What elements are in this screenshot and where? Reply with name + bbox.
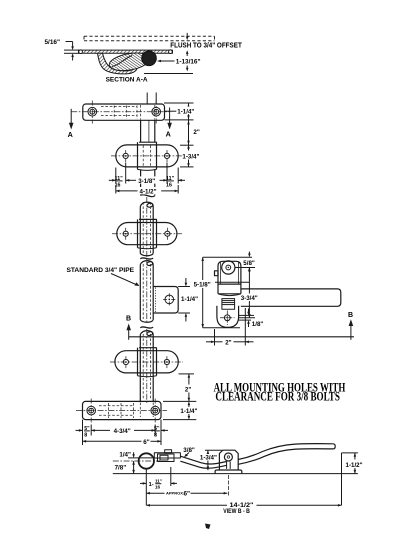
svg-text:16: 16 [155,485,161,490]
view B-B lever shaft [180,456,226,468]
dimension 2" upper [180,120,194,145]
svg-text:1-1/4": 1-1/4" [181,296,198,303]
dimension flush offset vertical [186,33,189,40]
svg-text:4-1/2": 4-1/2" [140,189,157,196]
svg-text:16: 16 [166,182,172,188]
top plate centerlines [71,100,169,125]
view B-B pipe circle [113,453,160,468]
svg-text:5/8": 5/8" [243,260,255,267]
section arrow A left [68,109,74,139]
second guide centerlines [112,228,182,240]
view B-B pivot bracket [215,450,242,473]
bottom guide left hole [123,359,128,364]
dimension 1/4" view B-B [128,452,152,458]
label STANDARD 3/4" PIPE with leader [67,267,140,286]
dimension approx 6" view B-B [146,475,228,496]
svg-text:B: B [126,316,131,323]
section A-A keeper bar (hatched) [79,50,173,54]
first guide centerlines [111,150,183,162]
page mark [205,524,211,530]
svg-text:3-3/4": 3-3/4" [241,295,258,302]
dimension 7/8" view B-B [132,461,135,474]
bottom plate right hole [151,406,160,415]
view B-B handle lever [238,444,335,465]
section A-A hook strip (hatched) [98,53,137,74]
svg-text:STANDARD 3/4" PIPE: STANDARD 3/4" PIPE [67,267,135,274]
section A-A flush plane dashed outline [84,36,215,41]
top plate hidden lines [101,105,155,120]
dimension row 11/16 3-1/8 11/16 [109,163,185,184]
flat bar between plate and first guide [141,120,155,142]
section A-A rod cross-section (solid) [142,51,157,66]
svg-text:5": 5" [154,426,160,432]
dimension 5-1/8" [201,257,252,328]
view B-B pivot pin [224,453,232,461]
svg-text:CLEARANCE FOR 3/8 BOLTS: CLEARANCE FOR 3/8 BOLTS [215,389,340,403]
dimension 1-3/4" view B-B [205,450,222,470]
bottom plate left hole [87,406,96,415]
svg-text:5-1/8": 5-1/8" [194,281,211,288]
dimension 5/8" [236,252,256,273]
second guide left hole [123,231,128,236]
dimension 2" lower [179,374,195,402]
spring coil (front view) [222,299,235,310]
svg-text:1-: 1- [149,482,154,488]
pipe break below clamp [140,327,153,336]
bottom mounting plate [83,401,162,419]
top plate left hole [88,107,97,116]
dimension 14-1/2" view B-B [146,453,341,507]
top keeper plate [83,104,165,120]
dimension 1-1/2" view B-B [342,453,358,474]
view B-B baseline [113,473,358,475]
latch bracket bottom obround (front view) [217,306,239,328]
svg-text:1-13/16": 1-13/16" [176,59,201,66]
dimension row 5/8 4-3/4 5/8 [76,420,169,445]
svg-text:6": 6" [143,439,149,446]
pipe segment upper [140,202,153,256]
svg-text:1-1/4": 1-1/4" [177,109,194,116]
second guide saddle [138,219,157,248]
pipe break below second guide [140,258,153,266]
dimension 4-1/2" [116,185,178,194]
pipe segment lower [140,334,153,401]
dimension 6" [83,440,162,443]
svg-text:7/8": 7/8" [115,464,127,471]
svg-text:A: A [68,130,73,139]
svg-text:5": 5" [84,426,90,432]
lever bar (front view) [241,289,341,306]
rod stubs above top keeper plate [147,93,156,105]
dimension 3-3/4" [239,268,255,318]
bottom guide centerlines [110,356,183,368]
latch bracket top (front view) [215,261,241,295]
svg-text:B: B [348,312,353,319]
svg-text:2": 2" [225,339,231,346]
section arrow B left [126,316,131,340]
second guide right hole [165,231,170,236]
second guide bracket [117,223,177,245]
svg-text:A: A [166,129,171,138]
section line B-B [129,336,354,338]
svg-text:6": 6" [184,490,191,497]
svg-text:1-1/4": 1-1/4" [180,408,197,415]
svg-text:11": 11" [115,176,124,182]
dimension 5/16" [64,42,79,61]
svg-text:11": 11" [166,176,175,182]
note text all mounting holes [214,381,346,404]
section arrow A right [166,108,172,139]
svg-text:1-3/4": 1-3/4" [182,153,199,160]
svg-text:1/8": 1/8" [252,321,264,328]
svg-text:1/4": 1/4" [119,452,131,459]
flat bar below first guide with break [141,169,155,196]
svg-text:FLUSH TO 3/4" OFFSET: FLUSH TO 3/4" OFFSET [170,41,242,50]
svg-text:2": 2" [193,129,199,136]
dimension 1-13/16" [144,50,193,73]
dimension 1-1/4" top plate [164,103,194,120]
section A-A cam lobe (hatched ellipse) [108,50,151,73]
bottom guide saddle [138,348,157,377]
first guide hidden pipe lines [143,146,150,167]
view B-B latch keeper cluster [154,450,180,462]
top plate right hole [152,107,161,116]
dimension 3/8" view B-B leader [183,447,195,457]
bottom obround hole [220,311,235,326]
dimension 1-3/4" first guide [180,145,194,167]
svg-text:VIEW B - B: VIEW B - B [223,508,250,515]
svg-text:APPROX.: APPROX. [166,491,184,496]
bottom guide right hole [164,359,169,364]
svg-text:3-1/8": 3-1/8" [138,178,155,185]
svg-text:8: 8 [84,433,87,439]
first guide right hole [164,153,169,158]
bottom plate centerlines [76,399,167,425]
dimension 2" latch [206,308,254,346]
pipe segment middle [140,264,153,322]
clamp lug hole [163,293,175,305]
first guide bracket [116,145,178,167]
bottom plate hidden lines [99,403,153,419]
svg-text:1-3/4": 1-3/4" [200,454,217,461]
dimension 1-1/4" bottom plate [163,401,196,419]
dimension 1-11/16 view B-B [140,467,177,505]
svg-text:1-1/2": 1-1/2" [346,462,363,469]
pipe clamp lug [153,287,178,314]
dimension 1/8" [239,309,254,328]
section arrow B right [348,312,353,340]
svg-text:4-3/4": 4-3/4" [114,428,131,435]
bottom guide bracket [115,351,178,373]
dimension 1-1/4" clamp [178,278,190,322]
svg-text:2": 2" [185,386,191,393]
svg-text:5/16": 5/16" [45,39,60,46]
svg-text:8: 8 [154,433,157,439]
first guide left hole [123,153,128,158]
svg-text:11": 11" [155,479,162,484]
svg-text:SECTION A-A: SECTION A-A [106,76,148,83]
first guide saddle [138,142,157,170]
pivot bolt (front view) [222,261,235,274]
